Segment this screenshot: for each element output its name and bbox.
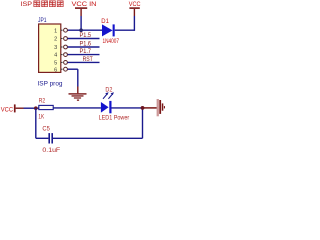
svg-text:P1.5: P1.5	[80, 33, 92, 39]
svg-text:R2: R2	[39, 98, 46, 104]
svg-text:P1.6: P1.6	[80, 42, 92, 48]
svg-text:4: 4	[54, 53, 57, 59]
svg-text:D2: D2	[105, 88, 113, 94]
svg-text:VCC: VCC	[129, 1, 141, 8]
svg-text:P1.7: P1.7	[80, 49, 92, 55]
svg-text:D1: D1	[101, 19, 109, 25]
svg-text:2: 2	[54, 37, 57, 43]
svg-text:JP1: JP1	[38, 17, 47, 24]
svg-text:VCC: VCC	[1, 106, 13, 113]
svg-text:VCC IN: VCC IN	[72, 1, 97, 8]
svg-text:6: 6	[54, 67, 57, 73]
svg-text:3: 3	[54, 45, 57, 51]
svg-text:ISP: ISP	[21, 1, 33, 8]
svg-text:ISP prog: ISP prog	[38, 81, 64, 88]
svg-text:1: 1	[54, 28, 57, 34]
svg-text:LED1 Power: LED1 Power	[99, 115, 130, 121]
svg-text:C5: C5	[42, 126, 50, 132]
svg-text:5: 5	[54, 61, 57, 67]
svg-text:0.1uF: 0.1uF	[42, 148, 60, 154]
svg-text:RST: RST	[83, 57, 93, 63]
svg-text:1K: 1K	[38, 114, 44, 120]
svg-text:1N4007: 1N4007	[103, 39, 120, 45]
